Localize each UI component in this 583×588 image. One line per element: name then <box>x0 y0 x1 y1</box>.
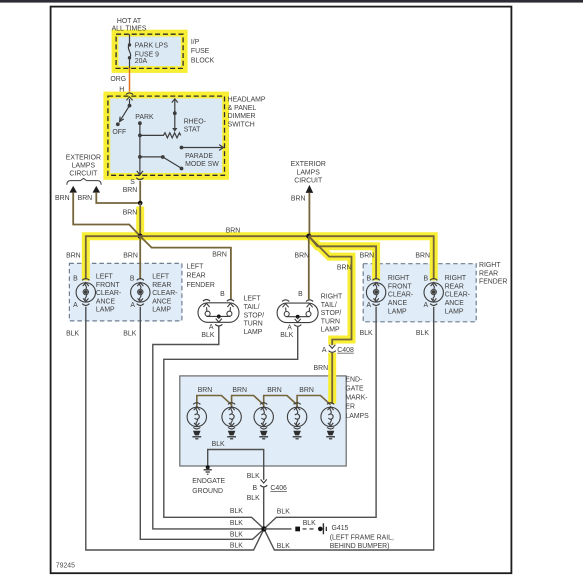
svg-text:S: S <box>130 179 135 186</box>
svg-text:LAMP: LAMP <box>152 307 171 314</box>
junction dot <box>138 201 143 206</box>
svg-text:ANCE: ANCE <box>445 300 465 307</box>
right rear fender box <box>363 264 476 322</box>
svg-text:LAMP: LAMP <box>96 307 115 314</box>
diagram frame <box>51 7 512 574</box>
svg-text:(LEFT FRAME RAIL,: (LEFT FRAME RAIL, <box>330 534 394 541</box>
svg-text:BLK: BLK <box>416 330 429 337</box>
svg-text:TURN: TURN <box>321 318 340 325</box>
wire ORG fuse to switch <box>129 68 131 92</box>
svg-text:BLK: BLK <box>123 330 136 337</box>
svg-text:B: B <box>253 485 258 492</box>
svg-text:A: A <box>287 324 292 331</box>
svg-text:RIGHT: RIGHT <box>479 262 501 269</box>
svg-text:EXTERIOR: EXTERIOR <box>66 155 101 162</box>
svg-text:A: A <box>209 324 214 331</box>
svg-text:DIMMER: DIMMER <box>228 113 256 120</box>
svg-text:LAMPS: LAMPS <box>345 413 369 420</box>
svg-text:A: A <box>73 302 78 309</box>
svg-text:BRN: BRN <box>299 387 314 394</box>
wire trunk to right junction <box>140 235 309 237</box>
wire junction2 to left tail lamp <box>140 236 231 299</box>
wire left exterior arrow down, diagonal to junction 2 <box>73 193 140 237</box>
svg-text:GROUND: GROUND <box>192 488 223 495</box>
svg-text:C406: C406 <box>270 485 287 492</box>
wire PARK contact to S <box>137 121 143 175</box>
svg-text:RHEO-: RHEO- <box>184 118 206 125</box>
wire junction3 down to right tail lamp <box>308 236 310 299</box>
svg-text:A: A <box>424 302 429 309</box>
svg-text:RIGHT: RIGHT <box>321 294 343 301</box>
svg-text:BLK: BLK <box>303 520 316 527</box>
right front clearance lamp <box>366 276 385 309</box>
svg-text:ER: ER <box>345 404 355 411</box>
wire junction3 to endgate feed <box>309 236 352 345</box>
svg-text:ORG: ORG <box>110 76 126 83</box>
svg-text:FENDER: FENDER <box>187 282 215 289</box>
svg-text:BRN: BRN <box>123 253 138 260</box>
endgate marker lamp 5 <box>321 403 340 439</box>
svg-text:STAT: STAT <box>184 127 201 134</box>
svg-text:BLK: BLK <box>247 473 260 480</box>
svg-text:END-: END- <box>345 376 362 383</box>
svg-text:BRN: BRN <box>78 195 93 202</box>
svg-text:FUSE: FUSE <box>191 48 210 55</box>
svg-text:BLK: BLK <box>66 330 79 337</box>
svg-text:RIGHT: RIGHT <box>388 275 410 282</box>
svg-text:ANCE: ANCE <box>388 300 408 307</box>
svg-text:BLK: BLK <box>230 520 243 527</box>
left rear fender box <box>69 263 181 321</box>
wire junction3 to right rear clearance <box>309 236 434 279</box>
svg-text:ANCE: ANCE <box>152 298 172 305</box>
junction dot 2 <box>138 234 143 239</box>
ground junction node <box>261 526 266 531</box>
svg-text:LEFT: LEFT <box>152 274 170 281</box>
svg-text:STOP/: STOP/ <box>321 310 342 317</box>
page top rule <box>0 0 583 3</box>
wire left front clearance ground return <box>86 307 264 550</box>
svg-text:B: B <box>130 275 135 282</box>
svg-text:GATE: GATE <box>345 385 364 392</box>
wire C408 to endgate marker lamp <box>331 352 333 404</box>
svg-text:20A: 20A <box>135 58 148 65</box>
endgate marker lamp 1 <box>187 403 206 439</box>
svg-text:PARK LPS: PARK LPS <box>135 43 169 50</box>
svg-text:HEADLAMP: HEADLAMP <box>228 97 266 104</box>
svg-text:TAIL/: TAIL/ <box>321 302 337 309</box>
svg-text:BLK: BLK <box>277 509 290 516</box>
svg-text:STOP/: STOP/ <box>244 312 265 319</box>
svg-text:CLEAR-: CLEAR- <box>96 290 121 297</box>
svg-text:LAMP: LAMP <box>445 308 464 315</box>
svg-text:TURN: TURN <box>244 321 263 328</box>
svg-text:EXTERIOR: EXTERIOR <box>291 161 326 168</box>
svg-text:B: B <box>298 291 303 298</box>
headlamp and panel dimmer switch box (highlighted) <box>108 96 225 175</box>
svg-text:BRN: BRN <box>267 387 282 394</box>
svg-text:BRN: BRN <box>295 253 310 260</box>
svg-text:BRN: BRN <box>123 187 138 194</box>
endgate marker lamp 3 <box>254 403 273 439</box>
wire right exterior arrow down to first junction <box>96 193 140 203</box>
svg-text:BLK: BLK <box>277 543 290 550</box>
rheostat <box>138 99 181 138</box>
svg-text:B: B <box>220 291 225 298</box>
svg-text:BEHIND BUMPER): BEHIND BUMPER) <box>330 543 390 550</box>
svg-text:LAMP: LAMP <box>321 327 340 334</box>
svg-text:A: A <box>130 302 135 309</box>
right rear clearance lamp <box>424 276 444 309</box>
svg-text:C408: C408 <box>337 347 354 354</box>
svg-text:BRN: BRN <box>55 195 70 202</box>
svg-text:BRN: BRN <box>291 196 306 203</box>
endgate marker lamp 2 <box>222 403 241 439</box>
svg-text:ANCE: ANCE <box>96 298 116 305</box>
svg-text:H: H <box>119 87 124 94</box>
svg-text:BLK: BLK <box>360 330 373 337</box>
connector B C406 <box>253 479 288 492</box>
svg-text:BLK: BLK <box>247 495 260 502</box>
svg-text:& PANEL: & PANEL <box>228 105 257 112</box>
svg-text:79245: 79245 <box>56 563 75 570</box>
svg-text:SWITCH: SWITCH <box>228 122 255 129</box>
wire C406 to ground junction <box>263 487 265 529</box>
connector S <box>130 178 143 186</box>
connector H <box>119 87 133 101</box>
svg-text:PARK: PARK <box>135 114 154 121</box>
svg-text:REAR: REAR <box>445 283 464 290</box>
svg-text:A: A <box>322 347 327 354</box>
wire right rear clearance ground return <box>264 307 434 550</box>
wire left rear clearance ground return <box>140 307 264 540</box>
svg-text:HOT AT: HOT AT <box>117 18 142 25</box>
svg-text:REAR: REAR <box>152 282 171 289</box>
fuse PARK LPS FUSE 9 20A <box>128 34 131 68</box>
wire junction2 down to left rear clearance <box>139 236 141 279</box>
svg-text:MARK-: MARK- <box>345 395 367 402</box>
svg-text:BRN: BRN <box>415 253 430 260</box>
svg-text:CLEAR-: CLEAR- <box>445 292 470 299</box>
svg-text:TAIL/: TAIL/ <box>244 304 260 311</box>
svg-text:BLK: BLK <box>201 332 214 339</box>
svg-text:FRONT: FRONT <box>96 282 121 289</box>
svg-text:LEFT: LEFT <box>187 263 205 270</box>
svg-text:CIRCUIT: CIRCUIT <box>294 178 323 185</box>
svg-text:I/P: I/P <box>191 39 200 46</box>
endgate marker lamp 4 <box>287 403 306 439</box>
svg-text:ALL TIMES: ALL TIMES <box>112 26 147 33</box>
svg-text:BLK: BLK <box>212 441 225 448</box>
svg-text:FRONT: FRONT <box>388 283 413 290</box>
left front clearance lamp <box>73 275 95 309</box>
svg-text:FENDER: FENDER <box>479 278 507 285</box>
svg-text:BRN: BRN <box>337 265 352 272</box>
svg-text:BRN: BRN <box>66 253 81 260</box>
parade mode switch <box>138 145 223 171</box>
wire S to junction <box>139 181 141 203</box>
svg-text:CLEAR-: CLEAR- <box>388 292 413 299</box>
ground lead to G415 <box>264 523 326 534</box>
wire endgate ground bus <box>208 450 264 480</box>
svg-text:LEFT: LEFT <box>96 274 114 281</box>
connector A C408 <box>322 345 354 354</box>
I/P fuse block box (highlighted) <box>116 34 183 68</box>
svg-text:LAMPS: LAMPS <box>297 169 321 176</box>
svg-text:ENDGATE: ENDGATE <box>192 478 225 485</box>
svg-text:BRN: BRN <box>232 387 247 394</box>
endgate daisy chain wires <box>197 396 331 407</box>
svg-text:CIRCUIT: CIRCUIT <box>69 170 98 177</box>
endgate ground <box>204 465 212 474</box>
svg-text:A: A <box>367 302 372 309</box>
wire right front clearance ground return <box>264 307 376 529</box>
svg-text:BRN: BRN <box>198 387 213 394</box>
svg-text:BLK: BLK <box>230 542 243 549</box>
svg-text:BRN: BRN <box>314 365 329 372</box>
svg-text:LAMP: LAMP <box>388 308 407 315</box>
svg-text:BRN: BRN <box>360 253 375 260</box>
svg-text:RIGHT: RIGHT <box>445 275 467 282</box>
svg-text:LAMP: LAMP <box>244 329 263 336</box>
svg-text:BRN: BRN <box>226 228 241 235</box>
svg-text:PARADE: PARADE <box>185 153 213 160</box>
junction dot 3 <box>306 234 311 239</box>
switch arm H to OFF <box>116 99 131 126</box>
wire right tail ground return <box>164 327 298 529</box>
svg-text:REAR: REAR <box>479 270 498 277</box>
svg-text:B: B <box>424 276 429 283</box>
svg-text:LEFT: LEFT <box>244 296 262 303</box>
wire junction2 left to left front clearance <box>86 236 140 279</box>
svg-text:B: B <box>73 275 78 282</box>
svg-text:OFF: OFF <box>112 129 126 136</box>
wire left tail ground return <box>153 327 264 529</box>
svg-text:CLEAR-: CLEAR- <box>152 290 177 297</box>
svg-text:G415: G415 <box>332 525 349 532</box>
svg-text:REAR: REAR <box>187 273 206 280</box>
svg-text:BLK: BLK <box>230 508 243 515</box>
left rear clearance lamp <box>130 275 150 309</box>
wire junction3 to right front clearance <box>309 236 376 279</box>
endgate marker lamps box <box>180 376 346 466</box>
wire trunk down <box>139 203 141 236</box>
svg-text:BRN: BRN <box>212 252 227 259</box>
arrow up right <box>93 186 101 193</box>
brace <box>67 178 101 184</box>
svg-text:BRN: BRN <box>123 210 138 217</box>
svg-text:MODE SW: MODE SW <box>185 161 219 168</box>
svg-text:BLK: BLK <box>230 532 243 539</box>
svg-text:BLK: BLK <box>280 332 293 339</box>
svg-text:B: B <box>367 276 372 283</box>
wire right exterior arrow down to junction 3 <box>308 193 310 236</box>
svg-text:LAMPS: LAMPS <box>72 162 96 169</box>
arrow up left <box>69 186 77 193</box>
svg-text:BLOCK: BLOCK <box>191 57 215 64</box>
